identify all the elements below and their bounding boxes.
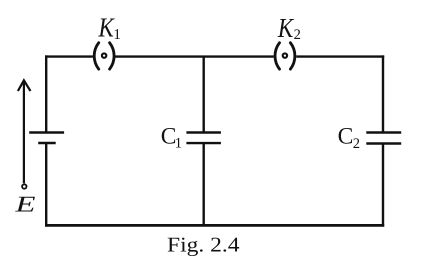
switch K1 left arc [94,43,99,69]
wire middle branch lower (C1 to bottom node) [202,143,204,226]
svg-text:1: 1 [175,135,182,151]
capacitor C2 bottom plate [366,142,401,144]
wire left edge lower (battery to bottom corner) [45,143,47,227]
svg-text:1: 1 [113,27,121,43]
wire right edge upper (corner to C2) [382,55,384,132]
svg-text:C: C [338,124,354,150]
switch K2 right arc [290,43,295,69]
svg-text:2: 2 [294,27,301,43]
battery E short plate (negative) [38,142,56,145]
svg-text:E: E [14,191,36,216]
svg-text:K: K [277,12,295,43]
switch K1 contact dot [102,53,106,57]
capacitor C1 top plate [186,131,221,133]
wire bottom [45,224,384,227]
arrowhead [18,80,31,91]
wire top-left (battery to K1) [45,55,93,57]
wire top-right (K2 to right corner) [296,55,384,57]
svg-text:2: 2 [353,136,360,152]
switch K1 right arc [110,43,115,69]
arrow shaft (EMF direction) [23,82,25,184]
switch K2 contact dot [283,53,287,57]
wire middle branch upper (top node to C1) [202,56,204,133]
switch K2 left arc [275,43,280,69]
wire left edge upper (corner to battery) [45,55,47,132]
battery E long plate (positive) [29,131,64,133]
capacitor C2 top plate [366,131,401,133]
capacitor C1 bottom plate [186,142,221,144]
svg-text:Fig. 2.4: Fig. 2.4 [167,233,240,257]
wire right edge lower (C2 to bottom corner) [382,144,384,227]
terminal circle at E [22,184,26,188]
wire top-middle (K1 to K2, through node above C1) [115,55,274,57]
